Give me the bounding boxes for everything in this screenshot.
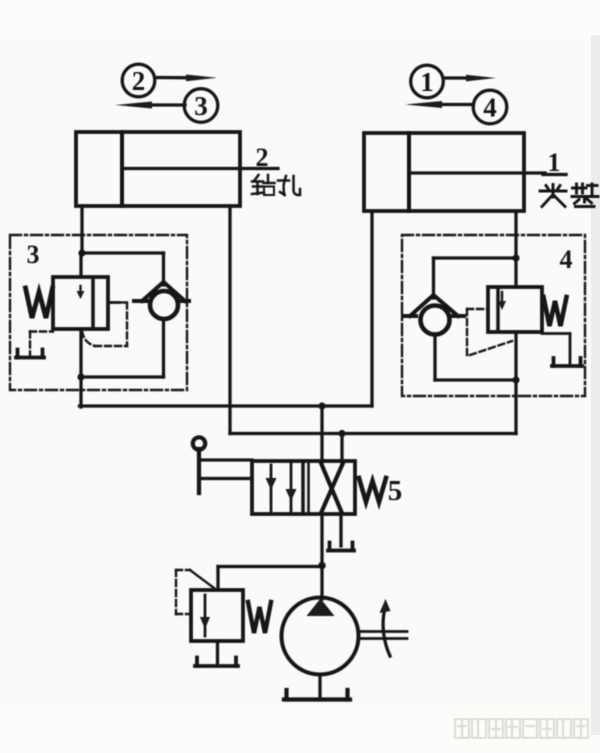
check valve box3 (seat wedge) — [134, 282, 189, 301]
wire valve T port down — [339, 514, 342, 546]
cylinder 1 (clamp cylinder) body — [364, 133, 524, 211]
node circle 1 (sequence step marker) — [411, 65, 444, 98]
node circle 4 (sequence step marker) — [473, 90, 507, 124]
cylinder 1 piston — [407, 133, 411, 211]
lever link upper — [199, 458, 252, 461]
wire cylinder2 right port down — [228, 206, 231, 434]
drain line box4 to tank — [542, 334, 570, 365]
wire valve B port riser — [340, 434, 343, 463]
svg-text:4: 4 — [560, 245, 573, 274]
lever knob of valve U5 — [193, 437, 205, 449]
pressure reducing valve box3 (body) — [53, 277, 108, 329]
tank symbol box3 drain — [16, 350, 44, 358]
arrow left of circle 4 — [405, 101, 474, 108]
tank symbol relief valve — [195, 658, 238, 667]
directional valve U5 body — [252, 461, 355, 514]
wire lower rail (to valve B port and box4) — [230, 432, 516, 435]
svg-text:5: 5 — [388, 475, 403, 507]
pilot sensing line dashed loop box4 — [467, 309, 512, 355]
pressure reducing valve box3 flow path arrow — [79, 286, 81, 296]
wire upper rail (bus from box3 to cylinder1 port) — [80, 404, 373, 407]
wire bottom horizontal to junction box4 — [435, 378, 516, 381]
directional valve U5 crossed position X — [321, 463, 342, 512]
node circle 2 (sequence step marker) — [122, 64, 155, 97]
wire cylinder1 right port down into box 4 — [514, 211, 517, 258]
svg-text:3: 3 — [27, 240, 40, 269]
node junction dot valve B port — [338, 430, 345, 437]
pressure reducing valve box3 inner bar — [91, 278, 95, 328]
wire check valve box4 bottom down — [433, 334, 436, 380]
node junction dot box4 bottom — [512, 376, 519, 383]
check valve box4 (seat wedge) — [403, 295, 464, 316]
directional valve U5 position divider — [301, 461, 305, 514]
wire pump inlet down — [318, 675, 321, 700]
relief valve body — [191, 590, 243, 641]
arrow left of circle 3 — [115, 102, 185, 109]
spring W of reducing valve box4 — [544, 297, 567, 326]
check valve box3 (ball circle) — [150, 291, 178, 319]
node junction dot box3 bottom — [77, 373, 84, 380]
subsystem box 3 border (dash-dot) — [10, 235, 187, 390]
watermark 知乎机械 text (embossed) — [455, 719, 588, 738]
pump drive shaft lines — [358, 630, 407, 633]
wire valve P port down to pump — [320, 514, 323, 599]
pressure reducing valve box4 inner bar — [496, 288, 500, 331]
node junction dot pump outlet — [318, 562, 326, 570]
pump P1 outlet triangle — [307, 599, 335, 617]
pump rotation arrow — [383, 607, 390, 656]
pilot sensing line dashed loop box3 — [108, 301, 119, 304]
arrow right of circle 2 — [155, 75, 217, 82]
label 夹紧 (clamping) — [540, 184, 598, 207]
wire junction down to reducing valve top box4 — [514, 258, 517, 287]
svg-text:1: 1 — [420, 67, 434, 97]
relief valve pilot line dashed — [190, 570, 214, 588]
cylinder 2 piston — [120, 132, 124, 206]
tank symbol box4 drain — [552, 358, 582, 366]
wire box3 output down to bus — [79, 377, 82, 407]
drain pilot line dashed box3 — [30, 332, 53, 357]
svg-text:4: 4 — [483, 93, 497, 123]
directional valve U5 divider second line — [307, 462, 310, 513]
label 钻孔 (drilling) — [252, 175, 300, 195]
svg-text:2: 2 — [256, 143, 269, 172]
node junction dot box3 top — [78, 249, 85, 256]
cylinder 2 piston rod — [124, 167, 278, 170]
subsystem box 4 border (dash-dot) — [402, 235, 585, 396]
right edge scan shadow — [591, 35, 600, 735]
wire cylinder1 left port down — [370, 211, 373, 406]
directional valve U5 left position flow arrow b — [290, 463, 293, 512]
wire relief valve supply — [218, 565, 322, 568]
svg-text:3: 3 — [194, 91, 208, 121]
directional valve U5 left position flow arrow a — [270, 465, 273, 512]
arrow right of circle 1 — [444, 75, 497, 82]
lever bar of valve U5 — [197, 449, 201, 493]
svg-text:2: 2 — [132, 66, 146, 96]
pressure reducing valve box4 (body) — [488, 287, 542, 332]
wire check valve bottom down — [162, 319, 165, 377]
lever link lower — [199, 477, 252, 480]
check valve box4 (ball circle) — [421, 306, 450, 335]
wire reducing valve bottom down to junction — [79, 329, 82, 377]
cylinder 2 (drill cylinder) body — [76, 132, 240, 206]
wire junction to check valve box4 (horizontal) — [434, 256, 517, 259]
relief valve flow arrow — [204, 595, 207, 636]
label 1 underline — [543, 173, 566, 176]
wire reducing valve box4 bottom down to junction — [514, 332, 517, 380]
svg-text:1: 1 — [548, 148, 561, 177]
wire bottom horizontal to junction — [81, 375, 164, 378]
wire box4 output down through border — [514, 380, 517, 434]
wire relief valve inlet drop — [216, 567, 219, 591]
cylinder 1 piston rod — [411, 171, 545, 174]
spring W of valve U5 — [359, 478, 386, 502]
tank symbol below valve U5 — [328, 543, 354, 551]
pump P1 circle — [282, 598, 359, 675]
spring W of reducing valve box3 — [26, 288, 53, 318]
pressure reducing valve box4 flow path arrow — [501, 292, 503, 303]
tank symbol pump suction — [284, 690, 350, 700]
node junction dot valve A port — [318, 402, 325, 409]
wire valve A port riser — [320, 406, 323, 462]
node circle 3 (sequence step marker) — [184, 89, 218, 123]
spring W of relief valve — [248, 602, 271, 633]
node junction dot box4 top — [512, 254, 519, 261]
wire junction down to reducing valve top — [79, 253, 82, 277]
wire cylinder2 left port down into box 3 — [80, 206, 83, 253]
wire junction to check valve (horizontal) — [82, 251, 164, 254]
wire relief valve outlet down — [216, 641, 219, 666]
wire down to check valve seat box4 — [432, 258, 435, 298]
wire down to check valve seat — [162, 253, 165, 285]
